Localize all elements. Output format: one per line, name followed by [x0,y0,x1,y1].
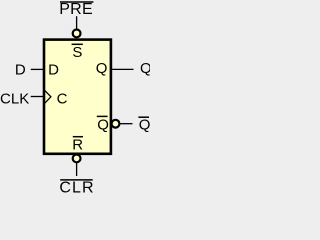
svg-text:S: S [72,44,82,61]
svg-text:CLK: CLK [0,90,29,107]
inverting bubble R input [73,155,81,163]
clock edge triangle [45,91,51,104]
wire bubble to CLR [76,162,78,176]
overline Qbar pin [97,115,108,117]
svg-text:R: R [72,136,83,153]
svg-text:PRE: PRE [59,1,93,18]
overline S pin [72,43,83,45]
wire Q output [112,68,134,70]
svg-text:Q: Q [96,60,108,77]
svg-text:D: D [48,62,59,79]
inverting bubble S input [73,30,81,38]
wire PRE to bubble [76,16,78,30]
svg-text:C: C [57,90,68,107]
overline CLR [60,179,92,181]
svg-text:Q: Q [97,117,109,134]
svg-text:Q: Q [139,117,150,134]
wire CLK input [31,96,43,98]
svg-text:CLR: CLR [59,180,94,194]
overline R pin [73,136,83,138]
flip-flop body U1 [44,40,111,154]
inverting bubble Qbar output [112,120,120,128]
svg-text:Q: Q [140,60,150,77]
overline PRE [60,1,93,3]
overline Qbar external [138,116,149,118]
wire D input [31,68,43,70]
svg-text:D: D [15,62,26,79]
wire Qbar output [120,123,133,125]
